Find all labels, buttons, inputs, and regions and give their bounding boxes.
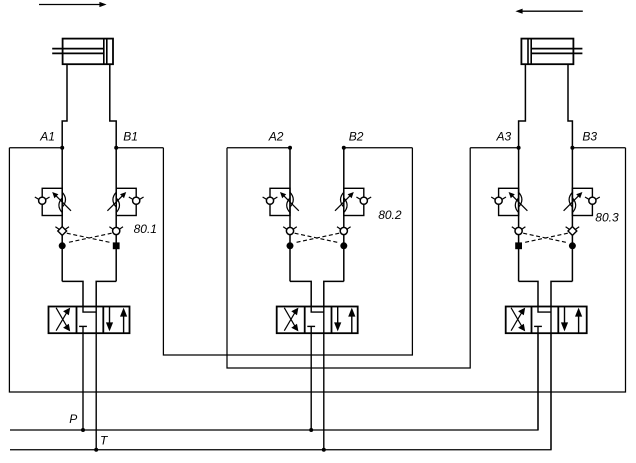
flow control valve F2B body: [344, 188, 364, 215]
wire B1 to valve T-side port: [96, 281, 116, 306]
pilot piston C2B: [340, 242, 347, 249]
pilot line 3 B-A: [523, 233, 568, 243]
svg-text:A2: A2: [268, 130, 284, 144]
pilot check valve seat C2B: [337, 227, 342, 231]
node A2: [288, 146, 292, 150]
node T1: [94, 448, 98, 452]
throttle arrow F1B: [107, 196, 122, 211]
valve V1 blocked P port: [79, 325, 87, 327]
wire rail to A3: [470, 147, 518, 149]
wire B1-B2 interconnect: [163, 148, 412, 355]
wire B3 to valve T-side port: [551, 281, 572, 306]
pilot check valve seat C1A: [55, 227, 60, 231]
throttle arcs F3B: [572, 197, 576, 213]
throttle arcs F2B: [343, 197, 347, 213]
pilot piston C3A: [515, 242, 522, 249]
directional valve V1 body: [49, 307, 130, 334]
pilot line 3 A-B: [523, 233, 568, 243]
pilot check valve poppet C3B: [568, 227, 577, 236]
svg-text:A3: A3: [496, 130, 512, 144]
wire A2 to valve P-side port: [290, 281, 311, 306]
wire cylinder 3 port A: [519, 64, 526, 148]
valve V2 parallel-flow arrows: [337, 307, 339, 328]
throttle arrow F2A: [284, 196, 299, 211]
valve V3 blocked P port: [534, 325, 542, 327]
valve V3 centre A-B bridge: [538, 307, 551, 313]
check valve seat F3A: [491, 197, 497, 201]
directional valve V1 section dividers: [76, 307, 78, 334]
wire A3 to valve P-side port: [519, 281, 538, 306]
node P2: [309, 428, 313, 432]
pilot check valve seat C3A: [512, 227, 517, 231]
directional valve V3 section dividers: [531, 307, 533, 334]
directional valve V2 section dividers: [304, 307, 306, 334]
node P1: [81, 428, 85, 432]
check valve seat F2B: [356, 197, 362, 201]
svg-text:P: P: [69, 412, 77, 426]
wire B2 line: [343, 148, 345, 282]
wire valve V1 to P rail: [82, 333, 84, 430]
wire B3 line: [571, 148, 573, 282]
P supply rail: [10, 333, 538, 430]
check valve ball F2A: [266, 197, 273, 204]
pilot piston C2A: [287, 242, 294, 249]
flow control valve F1B body: [116, 188, 136, 215]
svg-text:80.2: 80.2: [378, 208, 402, 222]
pilot line 1 B-A: [66, 233, 111, 243]
throttle arrow F1A: [56, 196, 71, 211]
valve V1 parallel-flow arrows: [109, 307, 111, 328]
check valve ball F1B: [133, 197, 140, 204]
pilot piston C3B: [569, 242, 576, 249]
node A1: [60, 146, 64, 150]
wire cylinder 1 port B: [110, 64, 116, 148]
pilot check valve seat C2A: [283, 227, 288, 231]
svg-text:A1: A1: [39, 130, 55, 144]
check valve ball F3A: [495, 197, 502, 204]
wire A2 line: [289, 148, 291, 282]
wire valve V1 T line: [95, 307, 97, 450]
cylinder 1 body: [63, 39, 113, 65]
pilot line 2 B-A: [294, 233, 339, 243]
pilot line 2 A-B: [295, 233, 340, 243]
pilot check valve poppet C3A: [515, 227, 522, 234]
svg-text:80.3: 80.3: [595, 211, 619, 225]
throttle arcs F1B: [116, 197, 120, 213]
pilot piston C1A: [59, 242, 66, 249]
wire valve V2 to P rail: [310, 333, 312, 430]
valve V1 crossed-flow arrows: [56, 312, 67, 330]
motion arrow (retract, right): [522, 10, 583, 12]
directional valve V3 body: [506, 307, 587, 334]
pilot check valve poppet C2A: [286, 227, 293, 234]
wire valve V3 T line: [550, 307, 552, 450]
wire A2-A3 interconnect: [227, 148, 470, 368]
cylinder 3 rod: [531, 48, 582, 50]
check valve seat F3B: [585, 197, 591, 201]
wire cylinder 3 port B: [568, 64, 572, 148]
wire B1 to rail: [116, 147, 163, 149]
wire cylinder 1 port A: [62, 64, 67, 148]
check valve seat F2A: [263, 197, 269, 201]
pilot piston C1B: [113, 242, 120, 249]
wire valve V2 T line: [323, 307, 325, 450]
pilot check valve poppet C1B: [113, 227, 120, 234]
wire A1 to valve P-side port: [62, 281, 83, 306]
throttle arrow F2B: [335, 196, 350, 211]
node B3: [570, 146, 574, 150]
T return rail: [10, 333, 551, 450]
cylinder 1 rod: [52, 48, 104, 50]
flow control valve F3B body: [572, 188, 592, 215]
check valve seat F1B: [129, 197, 135, 201]
throttle arcs F2A: [287, 197, 291, 213]
flow control valve F2A body: [270, 188, 290, 215]
throttle arrow F3B: [564, 196, 579, 211]
pilot check valve seat C1B: [109, 227, 114, 231]
node A3: [517, 146, 521, 150]
wire B2 to valve T-side port: [324, 281, 344, 306]
check valve seat F1A: [35, 197, 41, 201]
svg-text:B2: B2: [349, 130, 364, 144]
cylinder 1 piston: [103, 39, 105, 65]
valve V2 blocked P port: [307, 325, 315, 327]
node B1: [114, 146, 118, 150]
wire valve V3 to P rail: [537, 333, 539, 430]
svg-text:80.1: 80.1: [134, 222, 157, 236]
throttle arrow F3A: [512, 196, 527, 211]
wire rail to A2: [227, 147, 290, 149]
wire A1 line: [61, 148, 63, 282]
wire B1 line: [115, 148, 117, 282]
cylinder 3 piston: [530, 39, 532, 65]
check valve ball F1A: [39, 197, 46, 204]
valve V1 centre A-B bridge: [83, 307, 96, 313]
flow control valve F1A body: [42, 188, 62, 215]
check valve ball F3B: [589, 197, 596, 204]
motion arrow (extend, left): [39, 4, 101, 6]
wire rail to A1: [9, 147, 62, 149]
cylinder 3 body: [521, 39, 573, 65]
pilot check valve poppet C1A: [58, 227, 67, 236]
flow control valve F3A body: [499, 188, 519, 215]
throttle arcs F3A: [515, 197, 519, 213]
pilot check valve seat C3B: [566, 227, 571, 231]
node B2: [342, 146, 346, 150]
pilot line 1 A-B: [67, 233, 112, 243]
svg-text:B1: B1: [123, 130, 138, 144]
wire B2 to rail: [344, 147, 413, 149]
throttle arcs F1A: [59, 197, 63, 213]
wire B3 to rail: [572, 147, 625, 149]
wire A1-B3 interconnect: [9, 148, 625, 392]
check valve ball F2B: [360, 197, 367, 204]
valve V3 parallel-flow arrows: [564, 307, 566, 328]
directional valve V2 body: [277, 307, 358, 334]
wire A3 line: [518, 148, 520, 282]
valve V2 crossed-flow arrows: [284, 312, 295, 330]
node T2: [322, 448, 326, 452]
svg-text:B3: B3: [582, 130, 597, 144]
pilot check valve poppet C2B: [340, 227, 347, 234]
valve V3 crossed-flow arrows: [511, 312, 522, 330]
valve V2 centre A-B bridge: [311, 307, 324, 313]
